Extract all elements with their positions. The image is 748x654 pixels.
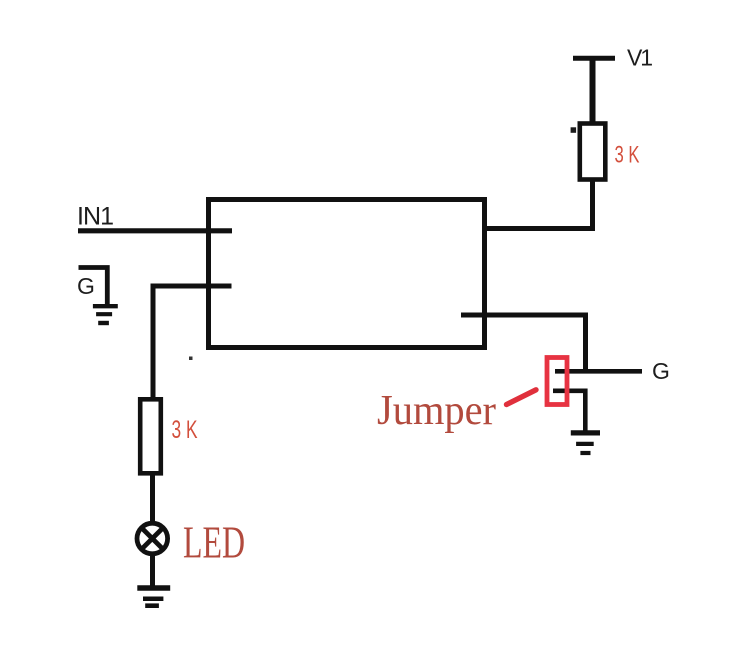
svg-text:LED: LED <box>183 517 245 568</box>
svg-text:3 K: 3 K <box>615 142 640 169</box>
jumper callout line <box>507 390 537 405</box>
wire net G <box>555 369 642 374</box>
wire <box>150 473 155 523</box>
LED D1 <box>137 523 168 554</box>
power V1 <box>573 56 615 61</box>
svg-text:Jumper: Jumper <box>377 388 496 434</box>
resistor R2 3K <box>140 399 161 473</box>
wire <box>153 286 232 400</box>
port G (left) <box>79 268 108 307</box>
wire <box>150 554 155 588</box>
svg-text:3 K: 3 K <box>172 416 198 444</box>
svg-text:V1: V1 <box>627 45 653 71</box>
svg-text:IN1: IN1 <box>77 203 114 231</box>
wire <box>461 315 586 371</box>
wire IN1 <box>78 228 232 233</box>
resistor R1 3K <box>571 124 606 180</box>
svg-text:G: G <box>77 273 95 299</box>
wire <box>460 180 593 229</box>
jumper highlight box <box>547 358 567 405</box>
wire <box>553 391 585 433</box>
svg-text:G: G <box>652 358 670 384</box>
ground <box>571 433 600 453</box>
wire <box>590 58 596 123</box>
IC box U1 <box>189 200 485 361</box>
ground <box>93 306 118 323</box>
ground <box>137 588 170 606</box>
